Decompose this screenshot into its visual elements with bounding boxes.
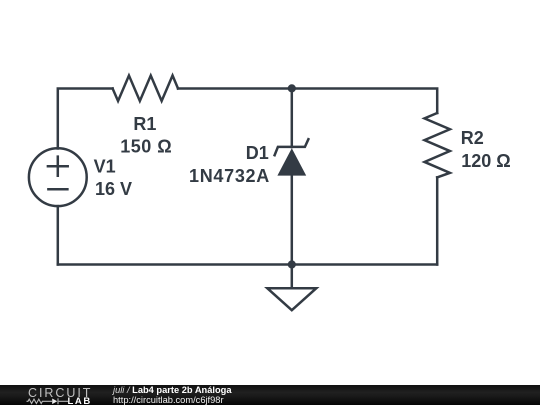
zener diode D1 anode triangle [277,148,306,175]
footer url text [113,395,224,405]
wire bottom node to ground [291,265,294,289]
V1 plus sign [48,157,68,176]
CircuitLab logo resistor-diode glyph [26,395,72,407]
node junction bottom of D1 [288,260,296,268]
voltage source V1 [29,148,87,206]
svg-text:R2: R2 [461,128,484,148]
footer title text [113,385,232,395]
wire R2 bottom to bottom rail [436,177,439,264]
wire top-left segment (V1 top to R1 left lead) [58,89,113,149]
wire V1 bottom to bottom rail [57,206,60,264]
wire top node down to zener D1 [291,89,294,148]
svg-text:150 Ω: 150 Ω [120,137,172,157]
zener diode D1 cathode bar with bent ends [275,139,309,155]
resistor R1 [113,76,178,102]
CircuitLab logo wordmark LAB [68,396,92,407]
svg-text:16 V: 16 V [95,179,132,199]
bottom rail wire [58,263,437,266]
wire D1 anode to bottom node [291,176,294,265]
svg-text:D1: D1 [246,143,269,163]
footer black bar [0,385,540,405]
node junction top of D1 [288,84,296,92]
resistor R2 [425,113,450,177]
ground symbol [267,288,316,310]
svg-text:R1: R1 [133,114,156,134]
svg-text:1N4732A: 1N4732A [189,166,270,186]
V1 minus sign [48,188,67,191]
wire top node to right corner [292,89,437,114]
svg-text:V1: V1 [94,157,116,177]
CircuitLab logo wordmark CIRCUIT [28,386,92,400]
wire R1 right lead to top node [178,87,292,90]
svg-text:120 Ω: 120 Ω [461,151,510,171]
